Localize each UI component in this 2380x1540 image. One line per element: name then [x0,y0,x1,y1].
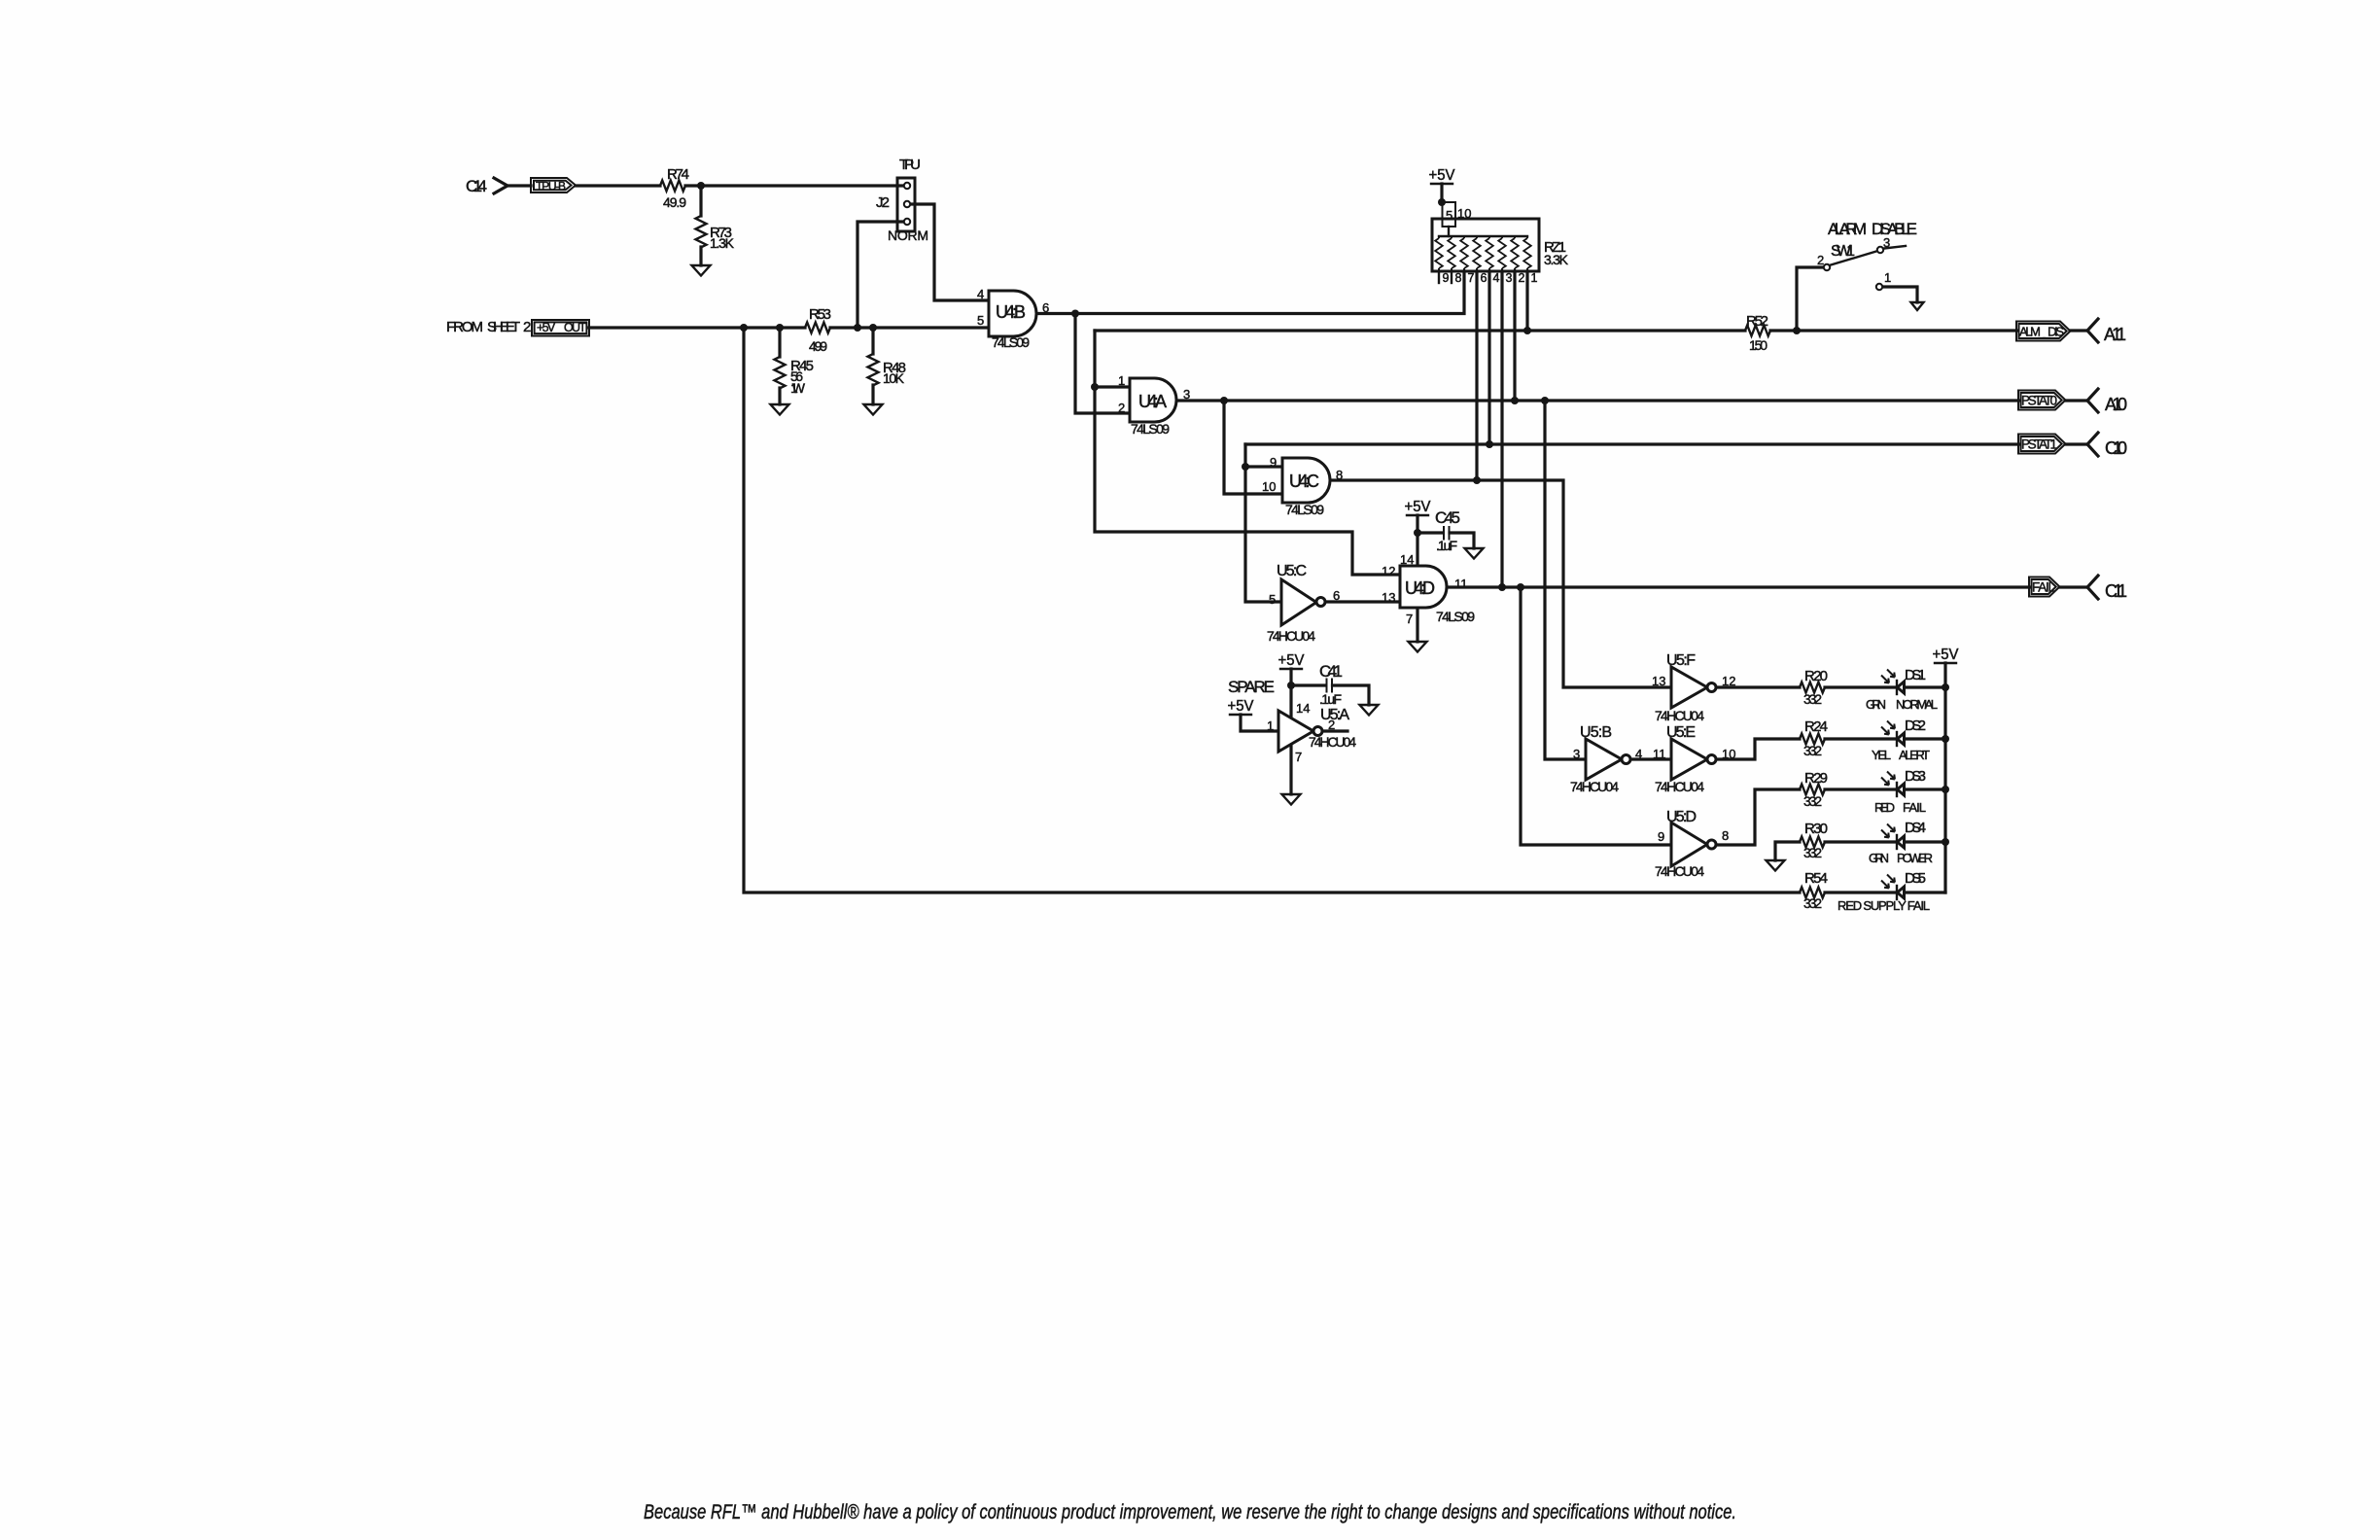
svg-text:49.9: 49.9 [663,194,686,210]
svg-text:U4:C: U4:C [1289,472,1319,491]
svg-text:C10: C10 [2105,438,2127,458]
svg-text:9: 9 [1443,271,1450,285]
svg-text:GRN: GRN [1866,697,1886,712]
svg-text:DS1: DS1 [1905,667,1926,683]
svg-text:A11: A11 [2104,325,2126,344]
svg-text:1: 1 [1884,270,1891,285]
svg-text:RED: RED [1874,800,1895,815]
svg-text:13: 13 [1382,590,1395,605]
svg-text:FAIL: FAIL [1903,800,1926,815]
svg-text:2: 2 [1118,401,1125,415]
svg-text:DS2: DS2 [1905,717,1926,734]
svg-text:6: 6 [1042,300,1049,315]
svg-text:150: 150 [1749,337,1767,353]
svg-text:74HCU04: 74HCU04 [1570,779,1619,794]
svg-text:DS3: DS3 [1905,768,1926,785]
svg-text:5: 5 [1446,208,1452,223]
svg-text:SPARE: SPARE [1228,678,1275,696]
svg-text:U4:A: U4:A [1138,392,1167,411]
svg-text:DS5: DS5 [1905,870,1926,887]
svg-text:74LS09: 74LS09 [992,334,1030,350]
svg-text:2: 2 [1519,271,1525,285]
svg-text:FROM: FROM [446,319,483,335]
svg-text:3: 3 [1506,271,1513,285]
svg-text:1.3K: 1.3K [710,235,735,251]
svg-text:3.3K: 3.3K [1544,252,1569,267]
svg-text:C14: C14 [466,177,487,195]
svg-text:PSTAT0: PSTAT0 [2021,394,2057,408]
svg-text:TPU-B: TPU-B [536,180,566,193]
svg-text:R24: R24 [1804,718,1828,735]
svg-text:7: 7 [1468,271,1475,285]
svg-text:9: 9 [1270,455,1277,470]
svg-text:4: 4 [977,287,984,301]
svg-text:C41: C41 [1319,662,1343,681]
svg-text:GRN: GRN [1869,851,1889,865]
svg-text:332: 332 [1803,793,1822,809]
svg-text:1: 1 [1118,373,1125,388]
svg-text:+5V__OUT: +5V__OUT [537,321,586,334]
svg-text:3: 3 [1573,747,1580,761]
svg-text:74LS09: 74LS09 [1131,421,1170,437]
svg-text:2: 2 [523,319,531,335]
svg-text:8: 8 [1722,828,1729,843]
svg-text:U5:F: U5:F [1666,652,1696,669]
svg-text:8: 8 [1336,468,1343,482]
svg-text:DS4: DS4 [1905,820,1926,836]
svg-text:NORMAL: NORMAL [1896,697,1938,712]
svg-text:R29: R29 [1804,770,1828,787]
svg-text:C45: C45 [1435,508,1460,527]
svg-text:1: 1 [1531,271,1538,285]
svg-text:7: 7 [1295,750,1302,764]
svg-text:11: 11 [1454,577,1468,591]
svg-text:R30: R30 [1804,821,1828,837]
svg-text:74LS09: 74LS09 [1285,502,1324,517]
svg-text:SHEET: SHEET [487,319,520,335]
svg-text:11: 11 [1653,747,1666,761]
svg-text:74HCU04: 74HCU04 [1267,628,1315,644]
svg-text:.1uF: .1uF [1436,538,1457,553]
svg-text:ALM__DIS: ALM__DIS [2019,325,2064,339]
svg-text:12: 12 [1382,564,1395,578]
svg-text:U4:B: U4:B [996,302,1026,322]
svg-text:.1uF: .1uF [1319,691,1342,707]
svg-text:2: 2 [1817,253,1824,267]
svg-text:TPU: TPU [899,157,921,173]
svg-text:R53: R53 [809,306,831,323]
svg-text:4: 4 [1493,271,1500,285]
svg-text:ALARM: ALARM [1828,220,1867,238]
svg-text:R52: R52 [1746,313,1768,330]
svg-text:9: 9 [1658,829,1664,844]
svg-text:332: 332 [1803,895,1822,911]
svg-text:U5:C: U5:C [1277,563,1307,579]
svg-text:3: 3 [1183,387,1190,402]
svg-text:ALERT: ALERT [1899,748,1930,762]
svg-text:332: 332 [1803,691,1822,707]
svg-text:RED SUPPLY FAIL: RED SUPPLY FAIL [1837,898,1930,913]
svg-text:A10: A10 [2105,395,2127,414]
svg-text:1W: 1W [790,380,806,396]
svg-text:1: 1 [1267,718,1274,733]
svg-text:10: 10 [1722,747,1735,761]
svg-text:74HCU04: 74HCU04 [1655,863,1704,879]
svg-text:PSTAT1: PSTAT1 [2021,437,2057,452]
svg-text:R54: R54 [1804,870,1828,887]
svg-text:13: 13 [1652,674,1665,688]
svg-text:POWER: POWER [1897,851,1933,865]
svg-text:NORM: NORM [888,227,928,243]
svg-text:10K: 10K [883,370,905,386]
svg-text:14: 14 [1296,701,1310,716]
svg-text:10: 10 [1262,479,1276,494]
svg-text:R74: R74 [667,166,689,183]
svg-text:SW1: SW1 [1831,243,1855,260]
svg-text:12: 12 [1722,674,1735,688]
svg-text:U5:E: U5:E [1666,724,1696,741]
svg-text:332: 332 [1803,845,1822,860]
svg-text:5: 5 [977,313,984,328]
svg-text:4: 4 [1635,747,1642,761]
svg-text:74HCU04: 74HCU04 [1309,734,1356,750]
svg-text:R20: R20 [1804,668,1828,684]
svg-text:YEL: YEL [1872,748,1891,762]
svg-text:6: 6 [1333,588,1340,603]
svg-text:U5:B: U5:B [1580,724,1612,741]
svg-text:U4:D: U4:D [1405,578,1435,598]
svg-text:3: 3 [1883,235,1890,250]
svg-text:10: 10 [1457,206,1471,221]
svg-text:U5:D: U5:D [1666,809,1697,825]
svg-text:2: 2 [1328,717,1335,732]
svg-text:C11: C11 [2105,581,2127,601]
svg-text:7: 7 [1406,612,1413,626]
svg-text:74LS09: 74LS09 [1436,609,1475,624]
svg-text:6: 6 [1481,271,1487,285]
svg-text:5: 5 [1269,592,1276,607]
svg-text:14: 14 [1400,552,1414,567]
svg-text:Because RFL™ and Hubbell® have: Because RFL™ and Hubbell® have a policy … [644,1500,1736,1523]
svg-text:FAIL: FAIL [2032,580,2055,595]
svg-text:74HCU04: 74HCU04 [1655,779,1704,794]
svg-text:332: 332 [1803,743,1822,758]
svg-text:8: 8 [1455,271,1462,285]
svg-text:74HCU04: 74HCU04 [1655,708,1704,723]
svg-text:J2: J2 [876,194,890,211]
svg-text:DISABLE: DISABLE [1872,220,1917,238]
svg-text:499: 499 [809,338,827,354]
